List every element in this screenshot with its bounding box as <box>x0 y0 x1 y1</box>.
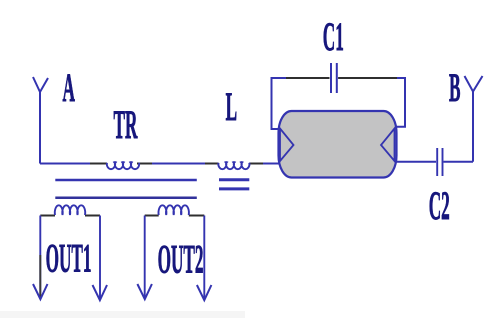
capacitor C2 plates <box>437 148 442 176</box>
OUT1 winding wire <box>40 215 100 217</box>
antenna A <box>33 77 48 164</box>
wire right <box>397 161 474 163</box>
transformer TR core line 2 <box>55 197 197 200</box>
OUT1 left lead <box>39 216 41 300</box>
OUT2 left arrowhead <box>137 284 152 299</box>
C1 loop wire <box>272 78 406 129</box>
antenna B <box>465 76 483 162</box>
OUT2 left lead <box>144 216 146 300</box>
OUT1 coil <box>55 205 85 215</box>
filter U1 body <box>279 111 397 178</box>
OUT2 right arrowhead <box>197 285 212 300</box>
svg-text:OUT1: OUT1 <box>46 236 92 280</box>
OUT2 coil <box>159 205 189 215</box>
OUT1 left arrowhead <box>33 284 48 299</box>
filter right chevron <box>381 129 395 162</box>
inductor L coil <box>218 162 249 169</box>
capacitor C1 plates <box>331 63 337 93</box>
svg-text:C1: C1 <box>323 15 344 59</box>
OUT1 left lead dark part <box>39 255 41 297</box>
svg-text:B: B <box>449 66 460 110</box>
svg-text:TR: TR <box>114 103 138 147</box>
wire dark segments <box>90 163 263 165</box>
OUT1 right lead <box>99 216 101 301</box>
inductor L core line 1 <box>219 178 249 181</box>
C1 loop dark segments <box>286 77 397 79</box>
transformer TR primary coil <box>107 162 139 169</box>
OUT2 right lead <box>203 216 205 301</box>
transformer TR core line 1 <box>55 179 197 182</box>
svg-text:A: A <box>62 66 74 110</box>
svg-text:OUT2: OUT2 <box>158 237 204 281</box>
svg-text:L: L <box>226 85 237 129</box>
svg-text:C2: C2 <box>429 184 450 228</box>
filter left chevron <box>280 129 294 162</box>
OUT1 right arrowhead <box>93 285 108 300</box>
OUT2 winding wire <box>145 215 205 217</box>
inductor L core line 2 <box>219 187 249 190</box>
faint scan band <box>0 311 245 318</box>
wire main left (blue base) <box>40 163 279 165</box>
